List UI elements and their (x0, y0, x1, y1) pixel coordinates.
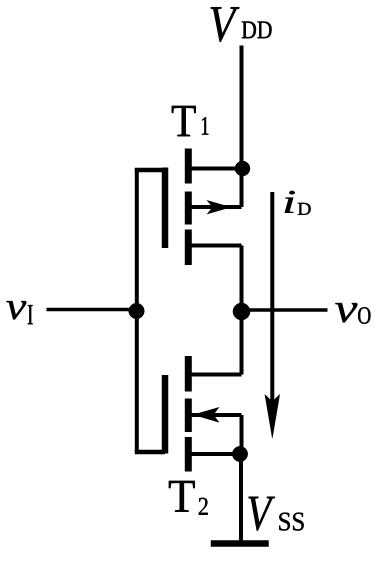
label iD (285, 191, 311, 215)
wire T1 drain lead (188, 244, 241, 248)
wire T1 body lead (191, 205, 242, 209)
arrowhead T1 body (points right) (207, 200, 232, 214)
channel segment T1 source-side (185, 230, 192, 266)
arrowhead T2 body (points left) (193, 407, 220, 423)
wire T2 gate bottom connect (135, 450, 165, 455)
wire gate bus vertical (135, 168, 139, 452)
current arrow iD (265, 192, 280, 438)
wire T1 gate top connect (135, 168, 165, 173)
wire T2 body lead (191, 413, 242, 417)
transistor T2 (165, 356, 242, 472)
wire T2 body tie to source node (240, 415, 244, 454)
node output junction (233, 303, 250, 320)
channel segment T2 source-side (185, 437, 192, 472)
wire T1 body tie to source node (240, 169, 244, 208)
gate bar T1 (162, 168, 169, 249)
label T2 (169, 481, 208, 515)
ground bar VSS (211, 541, 269, 547)
transistor T1 (165, 149, 243, 266)
power label VDD (211, 7, 272, 42)
power label VSS (249, 497, 304, 531)
label vI (6, 301, 32, 324)
label vO (335, 303, 370, 324)
gate bar T2 (162, 375, 169, 454)
channel segment T2 body (185, 399, 192, 433)
wire T1 drain to output node (240, 246, 244, 312)
label T1 (172, 106, 209, 136)
wire T2 source lead (188, 452, 240, 456)
node T1 source junction (235, 161, 250, 176)
channel segment T1 drain-side (185, 149, 192, 184)
wire T1 source lead (188, 167, 242, 171)
wire VDD supply (240, 46, 244, 170)
wire output node to T2 drain (240, 312, 244, 375)
channel segment T2 drain-side (185, 356, 192, 392)
wire output to vO (242, 308, 328, 312)
channel segment T1 body (185, 192, 192, 225)
node T2 source junction (232, 446, 247, 461)
wire T2 source to VSS (239, 454, 243, 544)
wire T2 drain lead (188, 373, 241, 377)
node gate junction (129, 303, 145, 319)
wire input vI (47, 308, 138, 312)
